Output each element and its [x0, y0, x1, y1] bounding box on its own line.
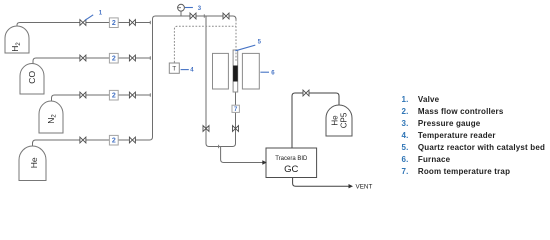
wire vent line	[293, 178, 349, 187]
svg-text:2.: 2.	[402, 107, 409, 116]
label 4 leader line	[181, 69, 189, 71]
pressure gauge PG	[178, 4, 185, 11]
svg-text:T: T	[172, 66, 176, 73]
catalyst bed (black)	[233, 66, 238, 82]
wire N2 supply line	[52, 95, 151, 102]
cylinder N2	[39, 101, 63, 133]
cylinder He	[19, 146, 46, 181]
node outlet tee junction tick	[218, 145, 220, 148]
svg-text:Furnace: Furnace	[418, 155, 451, 164]
wire reactor outlet down to junction	[221, 92, 236, 147]
valve V4 CO MFC outlet	[129, 55, 135, 61]
svg-text:2: 2	[112, 93, 116, 100]
GC box Tracera BID	[266, 148, 317, 178]
mass flow controller MFC2 (CO)	[109, 53, 118, 63]
cylinder CO	[20, 64, 44, 95]
mass flow controller MFC3 (N2)	[109, 90, 118, 100]
svg-text:Valve: Valve	[418, 95, 440, 104]
label 3 leader line	[185, 7, 193, 9]
wire dashed reactor feed segment	[235, 20, 237, 62]
wire H2 supply line	[17, 23, 151, 29]
cylinder He CP5	[326, 105, 352, 136]
furnace left half	[213, 53, 229, 89]
mass flow controller MFC1 (H2)	[109, 18, 118, 28]
svg-text:Mass flow controllers: Mass flow controllers	[418, 107, 504, 116]
wire CO supply line	[33, 58, 151, 64]
valve V7 He inlet	[80, 137, 86, 143]
valve V2 H2 MFC outlet	[129, 20, 135, 26]
room temperature trap box 7	[232, 105, 239, 113]
svg-text:He: He	[29, 157, 39, 168]
svg-text:4.: 4.	[402, 131, 409, 140]
wire He supply line + manifold + top header line	[33, 16, 237, 147]
valve V6 N2 MFC outlet	[129, 92, 135, 98]
svg-text:7.: 7.	[402, 167, 409, 176]
svg-text:VENT: VENT	[356, 184, 373, 191]
svg-text:Tracera BID: Tracera BID	[275, 156, 308, 162]
svg-text:1.: 1.	[402, 95, 409, 104]
svg-text:Quartz reactor with catalyst b: Quartz reactor with catalyst bed	[418, 143, 545, 152]
node H2 line to manifold junction tick	[149, 21, 151, 24]
label 6 leader line	[260, 71, 269, 73]
wire He CP5 carrier line to GC	[292, 93, 339, 148]
svg-text:6.: 6.	[402, 155, 409, 164]
valve V9 header after gauge	[190, 13, 196, 19]
valve V13 He CP5 carrier line	[303, 90, 309, 96]
node CO line to manifold junction tick	[149, 56, 151, 59]
cylinder H2	[5, 26, 29, 53]
valve V11 bypass line (vertical)	[203, 126, 209, 132]
mass flow controller MFC4 (He)	[109, 135, 118, 145]
valve V1 H2 inlet	[80, 20, 86, 26]
label 1 leader line	[85, 15, 93, 20]
valve V12 reactor outlet (vertical)	[233, 126, 239, 132]
svg-text:GC: GC	[284, 164, 298, 175]
valve V8 He MFC outlet	[129, 137, 135, 143]
svg-text:He: He	[331, 115, 340, 126]
svg-text:Pressure gauge: Pressure gauge	[418, 119, 481, 128]
temperature reader T box	[169, 63, 179, 73]
valve V10 header before reactor	[223, 13, 229, 19]
svg-text:3.: 3.	[402, 119, 409, 128]
svg-text:2: 2	[112, 56, 116, 63]
svg-text:2: 2	[112, 20, 116, 27]
valve V3 CO inlet	[80, 55, 86, 61]
quartz reactor tube	[233, 50, 238, 92]
wire gauge stem	[180, 11, 182, 16]
wire dashed thermocouple path from T reader to reactor	[174, 26, 236, 62]
node bypass tee junction tick on header	[203, 14, 205, 17]
svg-text:CP5: CP5	[340, 112, 349, 128]
arrowhead into GC	[262, 160, 267, 164]
label 5 leader line	[235, 45, 255, 51]
furnace right half	[242, 53, 259, 89]
svg-text:CO: CO	[27, 71, 37, 84]
svg-text:2: 2	[112, 138, 116, 145]
legend	[402, 95, 546, 176]
node N2 line to manifold junction tick	[149, 93, 151, 96]
valve V5 N2 inlet	[80, 92, 86, 98]
wire junction drop to GC inlet	[221, 147, 263, 163]
svg-text:Temperature reader: Temperature reader	[418, 131, 496, 140]
wire bypass line down	[206, 16, 221, 147]
svg-text:Room temperature trap: Room temperature trap	[418, 167, 510, 176]
svg-text:5.: 5.	[402, 143, 409, 152]
arrowhead to VENT	[349, 184, 354, 188]
